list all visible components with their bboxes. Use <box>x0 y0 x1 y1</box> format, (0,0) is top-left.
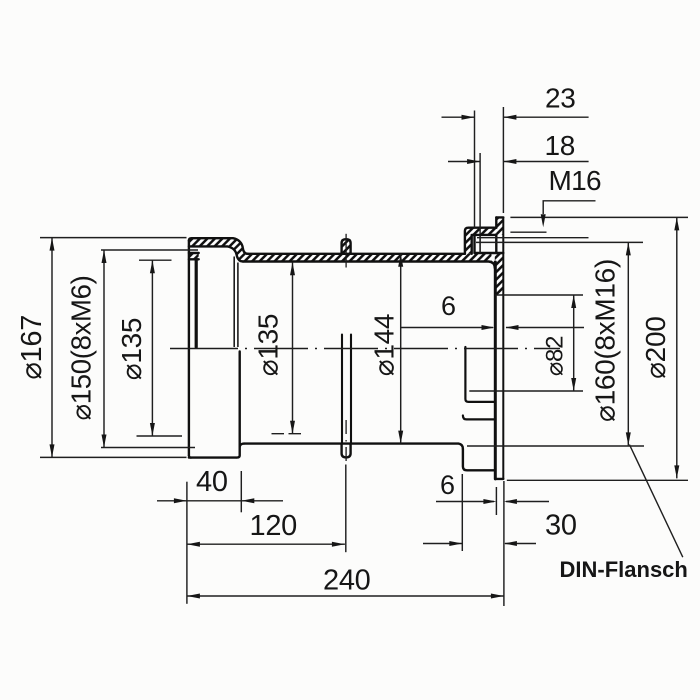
long right ext <box>503 481 505 606</box>
bottom left ext <box>186 482 188 604</box>
hub left wall inner <box>472 235 497 254</box>
rib nub bottom <box>342 444 351 458</box>
23/18 ext verticals <box>474 111 476 228</box>
rib centerline bottom <box>345 420 347 461</box>
120 dim line <box>187 543 345 545</box>
hub bottom (lower half) <box>463 449 495 470</box>
svg-text:240: 240 <box>323 565 371 597</box>
dia160 dim line <box>627 242 629 445</box>
collar block bottom edge <box>189 258 199 260</box>
plate top edge (boss) <box>496 216 503 218</box>
collar block below M6 hole hatch <box>189 253 199 259</box>
dia144 dim line <box>400 254 402 444</box>
rib nub hatch <box>342 239 351 254</box>
svg-text:⌀82: ⌀82 <box>542 336 569 376</box>
plate lower strip hatch <box>495 253 504 295</box>
dia82 dim line <box>573 295 575 391</box>
tube bottom joins collar face <box>240 444 244 447</box>
6 right dim line <box>436 501 549 503</box>
18 arrows <box>467 159 480 164</box>
flange collar F1 section hatch (left collar top band) <box>189 238 248 261</box>
23 arrows <box>462 115 475 120</box>
main centerline <box>170 348 560 350</box>
dia135M dim line <box>292 262 294 433</box>
hub inner lines lower half <box>465 347 495 402</box>
6 right short ext <box>495 487 497 515</box>
dia82 arrows <box>571 295 576 308</box>
M16 thread ext line <box>477 237 589 239</box>
collar top edge <box>189 238 248 254</box>
6 right arrows <box>483 499 496 504</box>
collar bottom edge <box>189 456 236 458</box>
dia150 arrows <box>102 250 107 263</box>
dia160 top ext / M16 hole centerline <box>476 241 643 243</box>
svg-text:40: 40 <box>196 466 228 498</box>
6 top arrows <box>482 325 495 330</box>
dia160 bottom ext <box>467 445 644 447</box>
M16 leader arrow <box>541 214 546 227</box>
svg-text:⌀200: ⌀200 <box>640 317 671 379</box>
dia200 arrows <box>674 217 679 230</box>
collar inner edge / M6 hole top <box>189 246 243 261</box>
svg-text:M16: M16 <box>549 165 601 196</box>
tube top wall hatch <box>242 254 492 262</box>
dia160 arrows <box>626 242 631 255</box>
120 arrows <box>187 542 200 547</box>
svg-text:6: 6 <box>441 291 456 321</box>
dia167 dim line <box>51 238 53 458</box>
collar bore edge line <box>233 257 235 348</box>
svg-text:⌀167: ⌀167 <box>16 315 48 380</box>
collar left face <box>188 241 190 456</box>
svg-text:30: 30 <box>545 510 577 542</box>
dia135M arrows <box>290 262 295 275</box>
dia200 top ext <box>510 216 688 218</box>
DIN leader <box>629 445 682 558</box>
plate boss hatch <box>496 217 503 235</box>
collar bore step edge <box>195 259 198 347</box>
svg-text:⌀144: ⌀144 <box>369 314 400 376</box>
dia135L arrows <box>150 260 155 273</box>
23 dim line <box>442 116 589 118</box>
tube inner top line <box>243 262 495 269</box>
svg-text:⌀135: ⌀135 <box>116 318 147 380</box>
18 dim line <box>448 161 589 163</box>
bore 82 top edge <box>495 294 583 296</box>
collar bottom-left corner <box>189 456 191 458</box>
rib lines lower half <box>341 335 343 444</box>
svg-text:⌀150(8xM6): ⌀150(8xM6) <box>65 275 96 420</box>
240 arrows <box>187 594 200 599</box>
dia144 arrows <box>398 254 403 267</box>
40 dim line <box>157 500 283 502</box>
dia135L ext stubs <box>139 259 172 261</box>
collar right face (lower half) <box>237 352 240 458</box>
hub wall hatch <box>465 228 496 254</box>
40 right ext <box>240 471 242 512</box>
svg-text:⌀160(8xM16): ⌀160(8xM16) <box>590 259 621 422</box>
M16 hole top short ext <box>510 231 546 233</box>
M16 hole end face <box>473 235 475 253</box>
svg-text:23: 23 <box>545 83 576 114</box>
rib centerline top <box>345 234 347 268</box>
6 top dim line <box>401 327 584 329</box>
plate left face <box>495 217 497 227</box>
30 dim line <box>423 543 536 545</box>
120 right ext (rib cl) <box>345 465 347 553</box>
svg-text:⌀135: ⌀135 <box>253 314 284 376</box>
30 arrows <box>449 541 462 546</box>
M16 hole bottom edge <box>475 252 504 254</box>
dia167 ext lines <box>40 237 187 239</box>
plate right face <box>502 217 504 479</box>
dia135L dim line <box>151 260 153 436</box>
dia150 ext lines <box>101 249 198 251</box>
30 left ext <box>461 474 463 551</box>
plate bottom edge <box>495 478 503 480</box>
svg-text:18: 18 <box>545 130 576 161</box>
tube bottom line <box>244 444 463 449</box>
dia135M hidden stub <box>272 433 302 435</box>
M16 leader <box>543 201 595 214</box>
svg-text:6: 6 <box>440 470 455 500</box>
dia167 arrows <box>50 238 55 251</box>
rib nub top <box>342 239 351 254</box>
svg-text:120: 120 <box>250 510 298 542</box>
dia200 bottom ext <box>507 479 688 481</box>
svg-text:DIN-Flansch: DIN-Flansch <box>560 557 688 582</box>
M16 thread line <box>479 235 481 253</box>
bore 82 bottom edge <box>469 390 583 392</box>
40 arrows <box>174 498 187 503</box>
240 dim line <box>187 595 504 597</box>
tube outer top line <box>247 253 465 255</box>
dia150 dim line <box>103 250 105 448</box>
hub left wall outer <box>465 228 496 254</box>
M6 hole bottom edge <box>189 252 199 254</box>
tube end face line <box>237 263 239 348</box>
dia200 dim line <box>676 217 678 478</box>
